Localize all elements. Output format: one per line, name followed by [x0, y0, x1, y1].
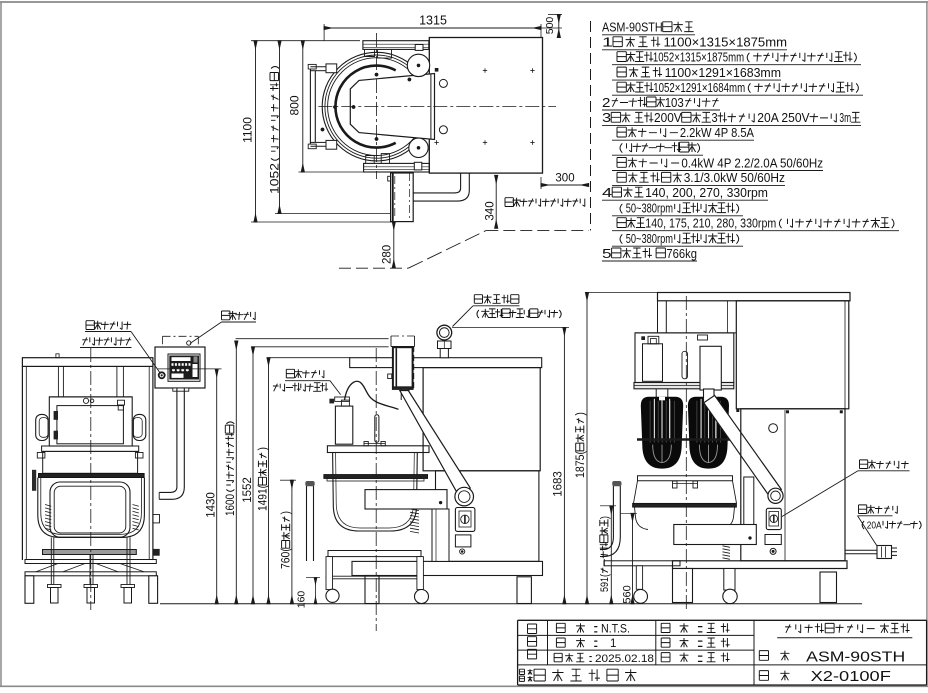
dim 1600 graphic: [235, 341, 237, 604]
mid view head shaft: [400, 389, 402, 400]
svg-text:1683: 1683: [553, 471, 565, 497]
mid view arm: [400, 391, 471, 496]
label proximity sensor: [286, 369, 324, 378]
mid view bowl rim: [327, 446, 429, 453]
front view control panel box: [155, 347, 205, 388]
right view whisk ring: [637, 438, 733, 440]
svg-text:1600: 1600: [225, 494, 237, 516]
svg-text:N.T.S.: N.T.S.: [601, 624, 630, 636]
top view dim 340: [495, 175, 497, 228]
top view centerline vertical: [376, 33, 378, 179]
mid view bowl tabs: [364, 442, 368, 446]
svg-text:1100×1291×1683mm: 1100×1291×1683mm: [665, 66, 781, 80]
right view small panel: [765, 535, 781, 545]
mid view sensor actuator: [388, 374, 392, 379]
svg-text:1315: 1315: [419, 14, 447, 28]
svg-text:2.2kW 4P 8.5A: 2.2kW 4P 8.5A: [680, 126, 755, 140]
top view upper pulley: [407, 54, 429, 76]
mid view deck band: [350, 358, 542, 368]
svg-text:140, 175, 210, 280, 330rpm: 140, 175, 210, 280, 330rpm: [645, 217, 776, 231]
svg-text::: :: [694, 622, 707, 636]
svg-text:50~380rpm: 50~380rpm: [626, 232, 673, 246]
mid view legs: [365, 576, 379, 604]
right view trolley caster: [636, 566, 642, 590]
front view trolley posts: [50, 537, 52, 584]
right view left whisk: [641, 397, 683, 469]
dim 560: [632, 513, 634, 604]
right view head deck bolt: [641, 336, 645, 340]
top view dim 1052 graphic: [279, 41, 281, 214]
mid view trolley casters: [326, 589, 339, 602]
svg-text:1875(: 1875(: [575, 451, 587, 478]
right view right whisk shaft: [703, 389, 705, 397]
front view door panel: [49, 397, 132, 446]
svg-text:): ): [258, 447, 270, 451]
svg-text:): ): [281, 511, 293, 515]
front view panel swivel dashdot: [163, 335, 199, 337]
top view body rectangle: [429, 38, 542, 174]
front view trolley tube frame: [50, 482, 130, 537]
svg-text:1052×1315×1875mm: 1052×1315×1875mm: [653, 51, 744, 65]
svg-text:1: 1: [610, 638, 616, 650]
front view casters: [48, 585, 62, 588]
mid view power switch: [455, 508, 475, 532]
right view legs: [673, 569, 693, 603]
label twist switch: [82, 337, 131, 345]
top view lower mounting band: [364, 163, 430, 172]
mid view lift arm box: [365, 490, 447, 509]
mid view lower body: [436, 471, 539, 562]
label suishou maintenance area: [505, 198, 585, 207]
mid view lower rect: [455, 535, 471, 547]
svg-text:): ): [575, 412, 587, 416]
svg-text:2025.02.18: 2025.02.18: [595, 653, 654, 665]
svg-text:280: 280: [382, 245, 394, 264]
right view base: [673, 561, 848, 569]
svg-text:ASM-90STH: ASM-90STH: [806, 648, 905, 665]
top view small circle lower: [439, 126, 447, 134]
svg-text:0.4kW 4P 2.2/2.0A 50/60Hz: 0.4kW 4P 2.2/2.0A 50/60Hz: [681, 156, 823, 170]
right view bowl: [638, 476, 733, 481]
front view centerline: [90, 348, 92, 610]
top view drain pipe: [413, 173, 469, 201]
svg-text:591(: 591(: [599, 574, 611, 592]
front view side frames: [21, 366, 23, 560]
top view dim 800: [302, 41, 304, 172]
svg-text:2: 2: [602, 96, 610, 110]
svg-text:560: 560: [621, 585, 633, 603]
svg-text:1052: 1052: [268, 163, 282, 194]
mid view sensor cable: [345, 381, 399, 409]
svg-text:500: 500: [544, 17, 556, 35]
dim 1491 stirring height: [268, 358, 270, 604]
right view head columns: [657, 301, 659, 333]
svg-text:1052×1291×1684mm: 1052×1291×1684mm: [653, 81, 745, 95]
label power plug: [859, 505, 898, 514]
top view bowl rim thick arc: [335, 66, 395, 148]
svg-text::: :: [587, 653, 594, 665]
front view trolley lower bar: [43, 550, 137, 555]
right view rear box: [736, 301, 849, 409]
right view deck fittings: [643, 344, 663, 382]
mid view base: [352, 561, 543, 575]
top view lower column: [391, 173, 414, 222]
dim 1430: [216, 369, 218, 604]
svg-text:760(: 760(: [281, 548, 293, 569]
right view lift arm box: [674, 525, 757, 545]
mid view eyebolt: [437, 325, 452, 340]
svg-text:3.1/3.0kW 50/60Hz: 3.1/3.0kW 50/60Hz: [684, 171, 785, 185]
svg-text:4: 4: [602, 186, 612, 200]
top view dim 300: [541, 184, 589, 186]
mid view spring: [410, 509, 419, 511]
right view arm end circle: [768, 488, 783, 503]
page bottom border: [0, 685, 928, 687]
svg-text:800: 800: [288, 95, 302, 115]
ground line: [160, 603, 862, 605]
svg-text:1: 1: [602, 36, 613, 50]
top view dim 1315: [324, 27, 541, 29]
dim 1875 open height: [586, 293, 588, 604]
title block frame: [518, 619, 927, 621]
front view top band: [22, 358, 153, 367]
top view upper mounting band: [363, 41, 429, 50]
mid view centerline: [375, 348, 377, 631]
label operation panel: [222, 311, 256, 320]
right view body dots: [736, 409, 739, 412]
mid view trolley handle: [306, 486, 308, 561]
right view caster right: [724, 569, 735, 591]
svg-text:5: 5: [602, 247, 612, 261]
front view left spring: [45, 505, 51, 507]
svg-text:300: 300: [555, 172, 574, 184]
right view power cord: [845, 549, 877, 551]
right view head body: [635, 333, 734, 383]
svg-text:160: 160: [295, 591, 307, 609]
svg-text:1100: 1100: [241, 117, 255, 143]
front view right handle: [133, 414, 146, 440]
svg-text:1100×1315×1875mm: 1100×1315×1875mm: [664, 36, 788, 50]
front view mid body: [43, 451, 138, 473]
mid view lift column: [432, 509, 449, 561]
mid view sensor box: [335, 406, 352, 444]
front view corner feet: [25, 576, 34, 604]
front view confirm knob: [158, 372, 165, 379]
mid view trolley rail: [326, 576, 423, 579]
svg-text:3: 3: [602, 111, 611, 125]
svg-text:200V: 200V: [654, 111, 682, 125]
svg-text::: :: [591, 636, 600, 650]
right view lift slide column: [744, 477, 754, 525]
svg-text:1491(: 1491(: [258, 485, 270, 511]
svg-text::: :: [694, 651, 707, 665]
right view centerline: [685, 296, 687, 610]
mid view trolley platform: [328, 551, 421, 557]
top view left handle: [309, 69, 311, 145]
svg-text:3m: 3m: [839, 111, 851, 125]
front view panel display: [169, 356, 199, 380]
mid view bowl body: [333, 453, 418, 532]
mid view trolley legs: [326, 557, 333, 590]
top view bowl outer rings: [322, 52, 431, 161]
right view trolley handle: [600, 486, 620, 557]
mid view table bar: [324, 475, 428, 479]
right view ring dot: [770, 548, 776, 554]
svg-text:50~380rpm: 50~380rpm: [626, 202, 673, 216]
front view bowl outline: [38, 478, 145, 538]
svg-text:1430: 1430: [206, 492, 218, 518]
right view head deck: [635, 332, 736, 334]
title third-angle projection: [528, 624, 537, 634]
top view dim 500: [558, 15, 560, 38]
svg-text:20A: 20A: [867, 520, 882, 532]
top view small circle upper: [439, 79, 447, 87]
front view right bracket: [153, 515, 160, 523]
page top border: [0, 1, 928, 3]
svg-text:): ): [599, 516, 611, 519]
right view arm upper: [704, 389, 715, 403]
mid view clamp pin: [375, 415, 379, 442]
maintenance area boundary: [339, 267, 408, 269]
right view bowl handle: [673, 481, 678, 488]
top view dim 1100: [255, 41, 257, 222]
front view sill band: [42, 446, 139, 451]
label cover open stop: [273, 383, 328, 392]
spec separator dashed line: [590, 21, 592, 230]
right view left whisk shaft: [655, 389, 657, 397]
front view left handle: [36, 414, 49, 440]
page left border: [0, 2, 2, 686]
svg-text:340: 340: [485, 201, 497, 220]
dim 760 stirring height: [291, 480, 293, 604]
front view panel pivot circle: [187, 341, 191, 345]
right view arm diagonal: [704, 395, 782, 497]
dim 1552: [252, 347, 254, 604]
right view spring: [723, 546, 731, 548]
dim 1683: [563, 327, 565, 603]
svg-text:140, 200, 270, 330rpm: 140, 200, 270, 330rpm: [645, 186, 768, 200]
right view right whisk: [688, 397, 729, 469]
front view head tower lines: [57, 366, 59, 397]
svg-text:ASM-90STH: ASM-90STH: [602, 21, 663, 35]
right view top plate: [658, 293, 851, 301]
right view head bottom plate: [634, 383, 734, 389]
svg-text:103: 103: [665, 96, 684, 110]
top view body cross marks: [483, 70, 487, 72]
svg-text:X2-0100F: X2-0100F: [811, 669, 891, 685]
mid view head cap dashdot: [391, 335, 415, 337]
label confirm switch: [86, 321, 131, 330]
top view head cover trapezoid: [350, 74, 434, 140]
label carry-in lifting tool: [474, 295, 519, 304]
mid view rear box: [423, 368, 540, 471]
front view panel feet: [173, 388, 189, 391]
right view trolley platform: [604, 561, 680, 566]
mid view head box: [393, 347, 413, 389]
label power switch: [860, 460, 909, 469]
dim 160: [315, 578, 317, 604]
top view dim 280: [393, 222, 395, 268]
front view right spring: [133, 505, 139, 507]
label remove after carry-in: [477, 309, 561, 318]
svg-text:766kg: 766kg: [666, 247, 697, 261]
top view bolt dots: [333, 105, 336, 108]
top view centerline horizontal: [318, 106, 556, 108]
page right border: [926, 2, 928, 686]
front view base rails: [25, 560, 156, 564]
right view power switch: [766, 508, 781, 529]
svg-text:20A 250V: 20A 250V: [757, 111, 810, 125]
front view panel pole: [176, 388, 178, 487]
svg-text::: :: [591, 622, 600, 636]
front view table dark bar: [38, 473, 144, 477]
mid view small dot: [460, 549, 465, 554]
svg-text::: :: [694, 636, 707, 650]
front view hinge strip: [32, 470, 36, 491]
top view lower pulley: [409, 138, 428, 157]
dim 591 bowl trolley position: [610, 506, 612, 604]
svg-text:3: 3: [712, 111, 718, 125]
right view body column: [741, 409, 845, 561]
svg-text:1552: 1552: [242, 477, 254, 503]
